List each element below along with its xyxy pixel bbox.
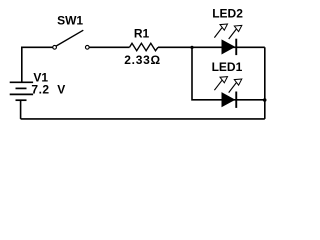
- node junction left: [190, 46, 193, 49]
- wire: [89, 46, 129, 48]
- wire: [264, 47, 266, 119]
- wire: [158, 46, 265, 48]
- svg-text:2.33Ω: 2.33Ω: [124, 53, 160, 67]
- node junction right: [263, 98, 267, 102]
- LED LED1: [214, 77, 241, 108]
- wire: [192, 47, 265, 99]
- svg-text:LED1: LED1: [212, 60, 243, 74]
- svg-text:R1: R1: [134, 27, 150, 41]
- svg-text:LED2: LED2: [212, 7, 243, 21]
- wire: [22, 47, 53, 82]
- LED LED2: [214, 24, 241, 55]
- wire: [21, 118, 265, 120]
- wire: [20, 100, 22, 119]
- battery V1: [10, 82, 33, 100]
- resistor R1: [130, 43, 159, 50]
- svg-text:7.2 V: 7.2 V: [31, 83, 65, 97]
- svg-text:SW1: SW1: [57, 14, 83, 28]
- switch SW1: [53, 30, 89, 49]
